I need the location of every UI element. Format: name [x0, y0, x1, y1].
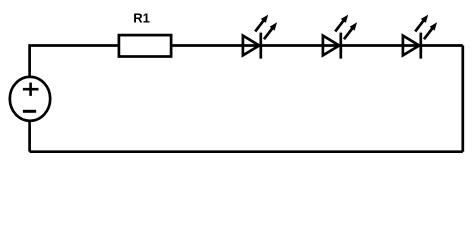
minus sign: [23, 110, 36, 113]
voltage source V1 circle: [10, 77, 50, 121]
plus sign: [23, 83, 39, 96]
svg-text:R1: R1: [133, 11, 150, 26]
wire: bottom-left vertical to source: [28, 122, 31, 152]
wire: top-left from source to resistor: [30, 46, 118, 76]
wire: right vertical: [461, 46, 464, 152]
LED D3: [403, 15, 437, 59]
LED D1: [243, 15, 277, 59]
wire: resistor to right corner through LEDs: [172, 44, 462, 47]
resistor R1 body: [119, 35, 171, 56]
LED D2: [323, 15, 357, 59]
wire: bottom: [30, 150, 463, 153]
